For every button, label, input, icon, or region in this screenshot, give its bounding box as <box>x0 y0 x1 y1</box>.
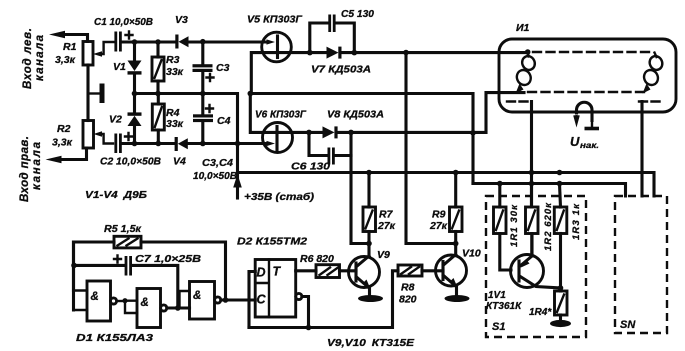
svg-text:С5 130: С5 130 <box>341 8 374 20</box>
svg-text:1R1 30к: 1R1 30к <box>509 204 520 247</box>
indicator tube И1 <box>499 22 676 112</box>
svg-text:3,3к: 3,3к <box>52 137 73 149</box>
svg-text:1R2 620к: 1R2 620к <box>543 202 554 251</box>
svg-text:U: U <box>570 134 580 149</box>
svg-text:С6 130: С6 130 <box>291 161 330 173</box>
svg-text:33к: 33к <box>166 66 184 78</box>
svg-text:27к: 27к <box>377 220 396 232</box>
node: right channel input label <box>19 136 43 202</box>
label C3,C4 value <box>193 157 237 182</box>
svg-text:10,0×50В: 10,0×50В <box>193 170 237 182</box>
wire И1 right cathode down <box>640 102 643 197</box>
diode V3 (Д9Б) inline <box>175 14 267 49</box>
svg-text:R8: R8 <box>401 282 415 294</box>
svg-text:V3: V3 <box>175 14 188 26</box>
svg-text:33к: 33к <box>166 118 184 130</box>
wire C2 output (signal bus y=143.5) <box>122 142 175 145</box>
sensor unit S1 dashed box <box>486 196 586 337</box>
svg-text:Вход прав.: Вход прав. <box>19 136 31 202</box>
svg-text:V2: V2 <box>109 114 122 126</box>
svg-text:И1: И1 <box>516 22 530 34</box>
wire V6 detector output down <box>351 156 369 244</box>
wire V5/V6 source rail to indicator <box>250 94 473 184</box>
svg-text:R3: R3 <box>166 54 180 66</box>
svg-text:1V1: 1V1 <box>488 290 506 301</box>
capacitor C2 10,0x50В <box>100 133 161 168</box>
wire И1 left cathode down <box>530 102 533 208</box>
svg-text:V10: V10 <box>462 248 481 260</box>
wire Q-bar output with inversion bubble <box>296 293 309 327</box>
wire R1 to R2 <box>86 65 89 121</box>
transistor V5 КП303Г (JFET) <box>247 14 310 94</box>
wire bottom feedback bus <box>249 326 390 329</box>
svg-text:R7: R7 <box>379 209 394 221</box>
svg-text:V9: V9 <box>377 249 390 261</box>
svg-text:R9: R9 <box>432 209 446 221</box>
resistor R6 820 <box>296 253 356 278</box>
svg-text:1R4*: 1R4* <box>529 307 552 318</box>
resistor R5 1,5к (oscillator feedback) <box>74 223 226 300</box>
wire D input feedback <box>249 272 255 328</box>
svg-text:V9,V10 КТ315Е: V9,V10 КТ315Е <box>327 337 415 349</box>
svg-text:D: D <box>257 266 266 280</box>
svg-text:&: & <box>193 290 201 302</box>
junction dots bottom section <box>71 263 563 331</box>
svg-text:V8 КД503А: V8 КД503А <box>327 109 384 121</box>
svg-text:27к: 27к <box>429 220 448 232</box>
resistor R8 820 <box>393 265 444 328</box>
svg-text:нак.: нак. <box>580 140 599 150</box>
resistor R4 33к <box>152 94 183 144</box>
svg-text:С1 10,0×50В: С1 10,0×50В <box>94 16 153 28</box>
wire C1 output (signal bus y=42) <box>122 40 176 43</box>
transistor V10 КТ315Е <box>436 244 481 303</box>
trigger D2 К155ТМ2 <box>237 236 307 318</box>
resistor 1R3 1к <box>554 184 582 289</box>
logic gate D1.2 (&) <box>125 289 190 328</box>
svg-text:С2 10,0×50В: С2 10,0×50В <box>100 156 161 168</box>
ground (1R4) <box>550 320 571 327</box>
svg-text:V5 КП303Г: V5 КП303Г <box>247 14 303 26</box>
svg-text:SN: SN <box>620 319 636 331</box>
resistor R2 (potentiometer 3,3к) <box>52 121 113 149</box>
wire V5 detector output down <box>406 53 456 244</box>
bias wire to S1 <box>473 184 626 197</box>
capacitor C4 (10,0x50В) <box>193 94 231 144</box>
diode V8 КД503А <box>309 93 524 139</box>
svg-text:Вход лев.: Вход лев. <box>22 28 34 89</box>
node: left input terminal arrow <box>49 31 88 42</box>
capacitor C6 130 (bypass loop) <box>291 132 351 172</box>
heater supply Uнак symbol <box>570 102 599 150</box>
svg-text:R5 1,5к: R5 1,5к <box>104 223 142 235</box>
svg-text:R1: R1 <box>63 41 77 53</box>
resistor R9 27к <box>429 173 462 244</box>
mid rail (doubler output) <box>135 94 238 173</box>
svg-text:V1: V1 <box>113 61 126 73</box>
svg-text:&: & <box>141 297 149 309</box>
+35В rail (stabilized supply bus) <box>238 173 655 197</box>
transistor V9 КТ315Е <box>349 244 391 303</box>
svg-text:V7 КД503А: V7 КД503А <box>311 64 371 76</box>
svg-text:V6 КП303Г: V6 КП303Г <box>255 109 307 121</box>
svg-text:+35В (стаб): +35В (стаб) <box>244 191 315 203</box>
capacitor C5 130 (bypass loop) <box>310 8 374 53</box>
svg-text:3,3к: 3,3к <box>55 54 76 66</box>
svg-text:S1: S1 <box>492 321 505 333</box>
svg-text:С3: С3 <box>216 62 230 74</box>
node: left channel input label <box>22 28 46 89</box>
И1 right anode segment (8) <box>642 53 665 94</box>
supply arrow +35В (стаб) <box>233 173 314 204</box>
capacitor C1 10,0x50В <box>94 16 153 52</box>
node: right input terminal arrow <box>46 148 87 163</box>
svg-text:D1 К155ЛА3: D1 К155ЛА3 <box>76 332 153 344</box>
svg-text:канала: канала <box>34 34 46 81</box>
svg-text:C: C <box>257 293 267 307</box>
ground (chassis bar for R1/R2) <box>88 84 105 104</box>
svg-text:820: 820 <box>399 294 417 306</box>
transistor 1V1 КТ361К <box>486 234 561 313</box>
resistor 1R1 30к <box>494 184 521 271</box>
diode V4 (Д9Б) inline <box>173 137 267 168</box>
svg-text:С3,С4: С3,С4 <box>202 157 233 169</box>
diode V1 (Д9Б) <box>113 42 142 113</box>
resistor 1R4 <box>529 288 567 320</box>
diode V7 КД503А <box>310 47 527 76</box>
junction dots left section <box>132 39 241 146</box>
junction dots top-right section <box>248 50 563 247</box>
resistor R1 (potentiometer 3,3к) <box>55 41 114 66</box>
capacitor C7 1,0x25В <box>74 253 201 308</box>
power unit SN box <box>615 196 667 333</box>
svg-text:С4: С4 <box>217 115 231 127</box>
svg-text:С7 1,0×25В: С7 1,0×25В <box>135 253 201 265</box>
logic gate D1.1 (&) <box>74 242 126 321</box>
svg-text:канала: канала <box>31 141 43 190</box>
resistor R3 33к <box>152 42 184 94</box>
capacitor C3 (10,0x50В) <box>193 42 230 94</box>
svg-text:КТ361К: КТ361К <box>486 301 522 312</box>
logic gate D1.3 (&) <box>180 282 256 320</box>
svg-text:&: & <box>91 291 99 303</box>
svg-text:R6 820: R6 820 <box>300 253 334 265</box>
diode V2 (Д9Б) <box>109 112 142 143</box>
svg-text:1R3 1к: 1R3 1к <box>571 203 582 240</box>
И1 left anode segment (8) <box>514 49 537 93</box>
svg-text:V4: V4 <box>173 156 186 168</box>
svg-text:R2: R2 <box>57 123 71 135</box>
transistor V6 КП303Г (JFET) <box>250 94 309 153</box>
И1 grid dashed lines <box>528 52 651 92</box>
svg-text:D2 К155ТМ2: D2 К155ТМ2 <box>237 236 307 248</box>
И1 cathode (filament) dashes <box>507 100 664 102</box>
resistor 1R2 620к <box>526 184 555 256</box>
svg-text:V1-V4 Д9Б: V1-V4 Д9Б <box>85 189 148 201</box>
resistor R7 27к <box>363 173 396 244</box>
